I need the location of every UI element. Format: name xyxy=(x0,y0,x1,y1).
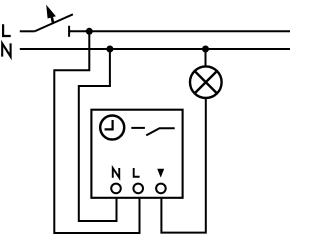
terminal output xyxy=(156,184,166,194)
terminal label L xyxy=(134,168,140,177)
wire N line to lamp top xyxy=(205,49,207,67)
node N label xyxy=(2,43,10,56)
wire timer output terminal to lamp bottom xyxy=(161,98,205,233)
junction on L line xyxy=(86,28,93,35)
switch S1 lever xyxy=(34,14,73,31)
node L label xyxy=(3,24,11,36)
junction on N line at lamp branch xyxy=(202,46,209,53)
switch S1 actuator arrow tail xyxy=(52,17,53,24)
terminal label output arrow xyxy=(157,169,164,178)
terminal label N xyxy=(113,168,120,178)
terminal L xyxy=(133,184,143,194)
lamp E1 cross xyxy=(195,71,217,93)
timer contact symbol lever and right pole xyxy=(146,128,175,135)
timer contact symbol left pole xyxy=(131,127,145,129)
switch S1 actuator arrow head xyxy=(46,5,56,19)
junction on N line at timer branch xyxy=(106,46,113,53)
terminal N xyxy=(111,184,121,194)
wire L left stub xyxy=(20,30,34,32)
switch S1 fixed contact xyxy=(68,26,70,37)
wire L line to timer L terminal xyxy=(54,31,139,233)
timer U1 enclosure xyxy=(91,110,182,198)
wire N line to timer N terminal xyxy=(79,49,117,221)
timer clock hands xyxy=(105,120,113,129)
lamp E1 circle xyxy=(190,66,222,98)
wire N xyxy=(20,48,290,50)
wire L right xyxy=(69,30,290,32)
timer clock symbol circle xyxy=(100,116,124,140)
